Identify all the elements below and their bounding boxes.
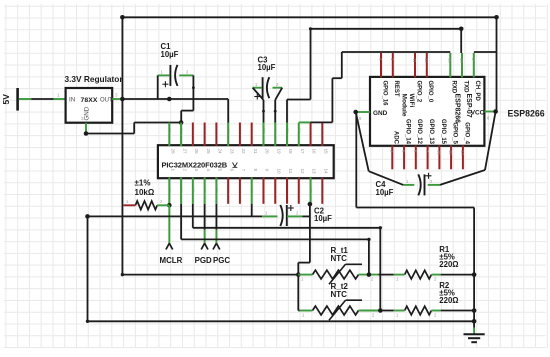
C1 left pin (158, 74, 170, 76)
svg-text:15: 15 (324, 149, 329, 155)
thermistor R_t2 (313, 306, 359, 315)
svg-text:78XX: 78XX (81, 97, 98, 104)
svg-text:__: __ (264, 127, 269, 133)
svg-text:17: 17 (300, 149, 305, 155)
ic U1 PIC32 box (158, 145, 334, 178)
C4 left pin (403, 184, 414, 186)
svg-text:REST: REST (393, 81, 399, 97)
wire pin8 drop (251, 204, 253, 217)
wire MCLR (168, 205, 170, 243)
svg-text:__: __ (170, 127, 175, 133)
svg-text:__: __ (217, 187, 222, 193)
bendpoint C3 left (262, 110, 265, 113)
wire R1 to gnd (441, 274, 474, 276)
svg-text:NTC: NTC (331, 254, 348, 263)
wire pin5 PGC (215, 204, 217, 230)
svg-text:__: __ (229, 127, 234, 133)
capacitor C3 (267, 77, 269, 98)
svg-text:11: 11 (288, 169, 293, 174)
wire RXD y=52 (342, 51, 451, 53)
svg-text:10µF: 10µF (161, 50, 179, 59)
svg-text:15: 15 (447, 58, 452, 63)
svg-text:WiFi: WiFi (408, 94, 415, 108)
C2 right pin (287, 215, 303, 217)
module ESP bottom pins (391, 145, 393, 169)
pgc arrow (213, 243, 216, 249)
wire C3 right to pin19 (275, 88, 282, 100)
svg-text:5V: 5V (1, 94, 11, 105)
wire x=87 down (87, 216, 89, 321)
svg-text:RXD: RXD (451, 81, 457, 94)
svg-text:3.3V Regulator: 3.3V Regulator (65, 74, 124, 84)
wire 3.3V rail y=99 to pin23 (122, 98, 228, 100)
svg-text:10: 10 (448, 150, 453, 155)
wire Rt1-Rt2 left link (297, 275, 299, 311)
junction R1 gnd (472, 272, 477, 277)
Rt2 left pin (300, 310, 313, 312)
svg-text:5: 5 (218, 169, 223, 172)
svg-text:7: 7 (241, 169, 246, 172)
junction regulator OUT (120, 97, 125, 102)
svg-text:18: 18 (288, 149, 293, 155)
svg-text:16: 16 (459, 58, 464, 63)
R2 right pin (431, 310, 440, 312)
wire CH_PD y=52 (474, 51, 497, 53)
C2 plus sign (288, 207, 294, 209)
C3 right pin (273, 87, 283, 89)
wire Rt1 to R1 (378, 274, 394, 276)
svg-text:ESP-07: ESP-07 (465, 94, 472, 118)
svg-text:ESP8266: ESP8266 (508, 109, 545, 119)
wire C3 left to pin20 (253, 88, 264, 100)
power symbol 5V bar (16, 88, 19, 111)
C4 plus sign (426, 175, 432, 177)
junction pin13 (308, 202, 313, 207)
capacitor C2 (280, 205, 282, 226)
R2 left pin (394, 310, 405, 312)
junction regulator GND (84, 131, 89, 136)
R3 right pin (157, 204, 169, 206)
svg-text:25: 25 (206, 149, 211, 155)
bendpoint rail left (309, 27, 312, 30)
Rt2 ntc mark (329, 300, 346, 320)
wire VCC to top rail (496, 17, 498, 111)
svg-text:__: __ (288, 127, 293, 133)
wire pin13 down (309, 204, 311, 263)
svg-text:CH_PD: CH_PD (474, 81, 480, 102)
wire C1 left leg (157, 75, 159, 99)
svg-text:PGD: PGD (195, 256, 212, 265)
svg-text:220Ω: 220Ω (439, 296, 458, 305)
wire C4 to VCC (440, 170, 485, 185)
svg-text:GND: GND (373, 110, 388, 117)
svg-text:22: 22 (241, 149, 246, 155)
C1 right pin (179, 74, 193, 76)
ground symbol (464, 333, 485, 335)
svg-text:GPIO_2: GPIO_2 (415, 81, 421, 103)
svg-text:21: 21 (253, 149, 258, 155)
svg-text:PGC: PGC (213, 256, 230, 265)
svg-text:ESP8266: ESP8266 (453, 94, 460, 124)
svg-text:8: 8 (253, 169, 258, 172)
svg-text:GPIO_4: GPIO_4 (463, 122, 469, 144)
wire R2 to gnd (441, 310, 474, 312)
svg-text:13: 13 (312, 169, 317, 175)
Rt1 ntc mark (329, 264, 346, 284)
svg-text:__: __ (312, 187, 317, 193)
svg-text:GPIO_16: GPIO_16 (381, 81, 387, 107)
svg-text:10µF: 10µF (258, 63, 276, 72)
svg-text:3: 3 (194, 169, 199, 172)
module ESP8266 box (370, 77, 484, 146)
bendpoint bottom rail left (86, 320, 89, 323)
C4 right pin (428, 184, 440, 186)
capacitor C4 (418, 174, 420, 195)
svg-text:±1%: ±1% (135, 179, 151, 188)
svg-text:28: 28 (171, 149, 176, 155)
svg-text:__: __ (253, 187, 258, 193)
svg-text:2: 2 (182, 169, 187, 172)
R3 left pin (124, 204, 136, 206)
regulator GND pin (85, 123, 87, 134)
junction pin1 MCLR 10k (167, 203, 172, 208)
svg-text:9: 9 (265, 169, 270, 172)
svg-text:24: 24 (218, 149, 223, 155)
svg-text:GPIO_15: GPIO_15 (440, 119, 446, 145)
bendpoint C1 right (192, 86, 195, 89)
svg-text:13: 13 (460, 150, 465, 155)
svg-text:__: __ (206, 187, 211, 193)
svg-text:IN: IN (69, 97, 75, 104)
wire 5V to regulator IN (19, 98, 32, 100)
wire pin2 net (180, 204, 182, 240)
thermistor R_t1 (313, 270, 359, 279)
svg-text:__: __ (276, 127, 281, 133)
module ESP GND pin (356, 111, 370, 113)
svg-text:__: __ (170, 187, 175, 193)
R1 left pin (394, 274, 405, 276)
C1 plus sign (162, 83, 168, 85)
svg-text:14: 14 (324, 169, 329, 175)
wire ESP GND down (355, 112, 357, 208)
wire 3.3V to Rt1 (122, 274, 298, 276)
C2 left pin (262, 215, 277, 217)
ic U1 bottom pins 1-14 (168, 178, 170, 204)
svg-text:__: __ (182, 187, 187, 193)
junction pin27 (179, 120, 184, 125)
wire left vertical x=122 (3.3V rail) (121, 17, 123, 274)
svg-text:Module: Module (400, 94, 407, 117)
junction C1 left at rail (167, 97, 172, 102)
junction ESP VCC (493, 109, 498, 114)
svg-text:1: 1 (171, 169, 176, 172)
pgd arrow (201, 243, 204, 249)
wire Rt2 to R2 (380, 310, 394, 312)
svg-text:GPIO_0: GPIO_0 (427, 81, 433, 103)
svg-text:10kΩ: 10kΩ (135, 188, 155, 197)
svg-text:GPIO_12: GPIO_12 (416, 119, 422, 145)
C3 plus sign (254, 96, 260, 98)
junction R2 gnd (472, 308, 477, 313)
svg-text:23: 23 (229, 149, 234, 155)
svg-text:NTC: NTC (331, 290, 348, 299)
svg-text:__: __ (182, 127, 187, 133)
svg-text:GPIO_5: GPIO_5 (452, 122, 458, 144)
junction TXD (459, 27, 464, 32)
junction Rt1 right (367, 272, 372, 277)
capacitor C1 (175, 65, 177, 86)
junction Rt1 left (296, 272, 301, 277)
svg-text:10µF: 10µF (314, 214, 332, 223)
svg-text:GND: GND (84, 106, 91, 120)
svg-text:27: 27 (182, 149, 187, 155)
module ESP top pins (380, 53, 382, 78)
svg-text:10: 10 (276, 169, 281, 175)
svg-text:220Ω: 220Ω (439, 260, 458, 269)
svg-text:11: 11 (412, 58, 417, 63)
svg-text:12: 12 (424, 58, 429, 63)
wire reg GND to pin27 (86, 133, 134, 135)
Rt2 right pin (359, 310, 379, 312)
bendpoint pin2 corner (367, 238, 370, 241)
wire pin18 net (310, 29, 312, 100)
bendpoint pin3 corner (379, 226, 382, 229)
junction bottom rail gnd (472, 319, 477, 324)
svg-text:19: 19 (276, 149, 281, 155)
svg-text:MCLR: MCLR (160, 256, 183, 265)
mclr arrow (166, 243, 169, 249)
svg-text:6: 6 (229, 169, 234, 172)
ic U1 top pins 28-15 (168, 123, 170, 147)
svg-text:20: 20 (265, 149, 270, 155)
svg-text:OUT: OUT (100, 98, 113, 104)
junction top-right (494, 15, 499, 20)
wire RXD staircase to pin17 (341, 52, 343, 78)
wire ESP GND to C4 (356, 112, 369, 171)
R1 right pin (431, 274, 440, 276)
svg-text:26: 26 (194, 149, 199, 155)
svg-text:16: 16 (312, 149, 317, 155)
svg-text:12: 12 (300, 169, 305, 175)
svg-text:GPIO_14: GPIO_14 (405, 119, 411, 145)
wire pin4 PGD (204, 204, 206, 230)
wire pin3 net (192, 204, 194, 228)
bendpoint C3 right (274, 110, 277, 113)
junction gnd bus left (85, 214, 90, 219)
Rt1 left pin (298, 274, 312, 276)
svg-text:__: __ (194, 187, 199, 193)
junction Rt2 right (378, 308, 383, 313)
svg-text:__: __ (300, 127, 305, 133)
bendpoint 3.3V corner (121, 273, 124, 276)
svg-text:GPIO_13: GPIO_13 (428, 119, 434, 145)
svg-text:TXD: TXD (462, 81, 468, 94)
module ESP VCC pin (484, 111, 495, 113)
resistor R2 (405, 306, 432, 315)
junction top-left (120, 15, 125, 20)
resistor R3 10k (135, 201, 157, 210)
wire rail y=28.8 (pin16 wire to TXD) (311, 28, 462, 30)
svg-text:4: 4 (206, 169, 211, 172)
resistor R1 (405, 270, 432, 279)
Rt1 right pin (359, 274, 379, 276)
C3 left pin (253, 87, 262, 89)
svg-text:10µF: 10µF (376, 188, 394, 197)
wire C2 right to pin13 drop (303, 215, 310, 217)
wire C1 right leg (192, 75, 194, 110)
wire bottom rail (88, 320, 475, 322)
junction ESP GND (353, 110, 358, 115)
ground stem (473, 321, 475, 327)
wire TXD drop (460, 29, 462, 53)
svg-text:ADC: ADC (393, 131, 399, 145)
svg-text:16: 16 (436, 150, 441, 155)
wire gnd bus y=216.4 (88, 215, 263, 217)
regulator 78XX box (66, 88, 113, 123)
wire top rail (122, 16, 496, 18)
regulator OUT pin (112, 98, 122, 100)
